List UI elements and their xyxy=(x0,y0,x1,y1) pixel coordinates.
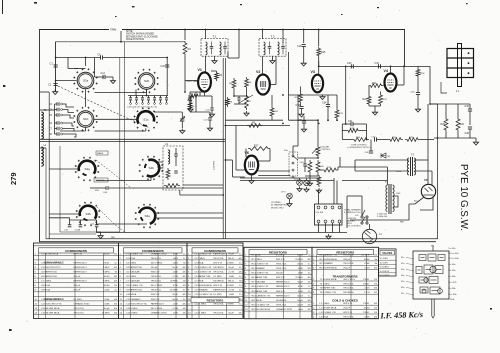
junction xyxy=(55,80,57,82)
trimmer arrow xyxy=(188,96,193,101)
svg-text:TROLITUL: TROLITUL xyxy=(151,281,162,283)
svg-text:TONAL SPEAKER: TONAL SPEAKER xyxy=(344,209,361,212)
wire xyxy=(258,170,290,172)
wire xyxy=(445,104,447,117)
wire xyxy=(475,138,477,140)
wire xyxy=(258,160,270,162)
wire xyxy=(225,159,232,161)
wire xyxy=(175,156,177,166)
wire xyxy=(445,132,447,138)
table condensers 2 xyxy=(119,243,188,319)
junction xyxy=(166,57,168,59)
capacitor C21a xyxy=(210,108,213,110)
svg-text:PAPER 500 V: PAPER 500 V xyxy=(151,302,165,305)
wire lamp bus xyxy=(240,177,320,179)
wire xyxy=(457,132,459,138)
svg-text:C43: C43 xyxy=(375,62,380,65)
svg-text:470K: 470K xyxy=(298,286,304,288)
resistor R21 xyxy=(369,84,384,88)
resistor R25 xyxy=(444,117,448,132)
svg-text:VOL.CONTROL: VOL.CONTROL xyxy=(347,226,362,228)
svg-text:TROLITUL: TROLITUL xyxy=(343,316,354,318)
wire speaker terminal xyxy=(339,223,341,233)
junction xyxy=(262,29,264,31)
capacitor C37 xyxy=(302,121,306,123)
svg-text:PAPER 500 V: PAPER 500 V xyxy=(73,280,87,283)
wire xyxy=(112,77,114,79)
wire xyxy=(289,119,319,121)
wire xyxy=(109,187,224,189)
wire speaker terminal xyxy=(332,223,334,233)
wire xyxy=(420,197,433,210)
capacitor C46a xyxy=(106,186,108,189)
valve V2 xyxy=(256,75,270,95)
svg-text:TROLITUL: TROLITUL xyxy=(213,258,224,260)
svg-text:WW 5 W: WW 5 W xyxy=(73,253,83,255)
svg-text:T4 0.5 MEG ¼W: T4 0.5 MEG ¼W xyxy=(320,291,337,294)
wire trim drop xyxy=(120,31,122,42)
svg-text:2.2 M: 2.2 M xyxy=(229,272,235,274)
coil L3 windings xyxy=(168,150,170,164)
svg-text:56-66: 56-66 xyxy=(297,254,303,256)
svg-text:& (SPEECH COIL): & (SPEECH COIL) xyxy=(344,212,361,214)
wire cap step xyxy=(63,104,75,107)
svg-text:.0005: .0005 xyxy=(298,309,304,311)
wire xyxy=(417,78,419,92)
wire xyxy=(60,130,86,132)
label ORANGE box xyxy=(94,178,108,182)
svg-text:2/-: 2/- xyxy=(183,253,186,255)
wire xyxy=(68,68,78,70)
svg-text:C12 1 MEG: C12 1 MEG xyxy=(195,303,207,305)
svg-text:V.4 10P13: V.4 10P13 xyxy=(380,271,390,273)
wire xyxy=(234,103,247,105)
wire HT to V5 xyxy=(427,104,429,184)
capacitor C49 xyxy=(468,109,472,111)
wire xyxy=(96,220,98,225)
svg-text:C10 0.5 MEG ¼W: C10 0.5 MEG ¼W xyxy=(195,293,214,296)
wire xyxy=(342,123,351,125)
svg-text:AERIAL VARIABLE: AERIAL VARIABLE xyxy=(44,261,64,264)
svg-text:4–850×220: 4–850×220 xyxy=(377,213,388,216)
switch S6 xyxy=(361,210,368,224)
svg-text:TROLITUL: TROLITUL xyxy=(343,288,354,290)
svg-text:R6 PAPER TUB.: R6 PAPER TUB. xyxy=(252,276,269,279)
svg-text:100K: 100K xyxy=(173,303,179,305)
svg-text:CONDENSERS: CONDENSERS xyxy=(65,249,87,253)
wire AF to T4 xyxy=(338,166,388,168)
junction xyxy=(85,57,87,59)
capacitor C45 xyxy=(416,93,420,95)
svg-text:TROLITUL: TROLITUL xyxy=(151,290,162,292)
wire xyxy=(214,56,216,58)
svg-text:V5: V5 xyxy=(424,178,428,182)
svg-text:PAPER 500 V: PAPER 500 V xyxy=(276,285,290,288)
wire xyxy=(272,56,274,58)
svg-text:COILS & CHOKES: COILS & CHOKES xyxy=(332,299,358,303)
wire to V4 grid xyxy=(390,66,392,74)
capacitor C20 xyxy=(129,98,132,100)
junction xyxy=(318,123,320,125)
wire xyxy=(368,86,370,95)
resistor R19 xyxy=(346,129,360,133)
resistor R27 xyxy=(248,147,270,151)
wire bus B xyxy=(224,58,226,239)
svg-text:C8 SILVER MICA: C8 SILVER MICA xyxy=(195,284,213,287)
junction xyxy=(184,91,186,93)
svg-text:25 MFD: 25 MFD xyxy=(295,259,303,261)
wire xyxy=(318,195,320,197)
resistor R7b xyxy=(245,94,249,110)
wire xyxy=(309,174,311,176)
resistor R6b xyxy=(245,77,249,89)
capacitor C14 xyxy=(103,75,105,79)
svg-text:C7 1 MEG: C7 1 MEG xyxy=(41,281,52,283)
wire xyxy=(205,95,213,97)
capacitor C9 xyxy=(101,55,103,59)
wire xyxy=(297,95,299,146)
svg-text:350 V WKG: 350 V WKG xyxy=(151,308,163,310)
svg-text:25 MFD: 25 MFD xyxy=(102,312,110,314)
svg-text:8 MFD: 8 MFD xyxy=(103,272,110,274)
table condensers 3 xyxy=(187,243,243,319)
wire xyxy=(142,96,144,98)
wire xyxy=(336,95,338,108)
mechanical link (dashed) xyxy=(58,86,150,128)
wire xyxy=(200,92,205,96)
valve V3 xyxy=(312,75,323,93)
svg-text:250 pF: 250 pF xyxy=(343,308,350,310)
svg-text:R25: R25 xyxy=(441,123,446,126)
T4 primary winding xyxy=(386,185,388,212)
wire LF bus lower xyxy=(40,141,225,143)
wire xyxy=(190,111,210,113)
svg-text:100K: 100K xyxy=(104,290,110,292)
svg-text:2.2 M: 2.2 M xyxy=(173,308,179,310)
resistor R2 xyxy=(183,41,187,56)
wire T4 sec xyxy=(393,196,398,207)
svg-text:279: 279 xyxy=(9,172,18,185)
ground R22 R23 xyxy=(372,110,377,115)
svg-text:TROLITUL: TROLITUL xyxy=(276,264,287,266)
wire xyxy=(298,157,318,159)
wire xyxy=(49,213,79,215)
wire xyxy=(103,57,167,59)
wire xyxy=(160,100,162,102)
wire xyxy=(369,105,381,107)
svg-text:(+) FREQUENCY NOTE (-): (+) FREQUENCY NOTE (-) xyxy=(347,147,372,149)
svg-text:CERAMIC N750: CERAMIC N750 xyxy=(276,308,293,311)
svg-text:C13 1 MEG: C13 1 MEG xyxy=(126,308,138,310)
wire xyxy=(305,175,318,177)
junction xyxy=(336,119,338,121)
svg-text:50 pF: 50 pF xyxy=(297,282,303,284)
capacitor C21 xyxy=(135,98,138,100)
wire xyxy=(56,57,101,59)
svg-text:C21 RES.: C21 RES. xyxy=(214,160,216,170)
ground V3 xyxy=(320,95,325,100)
wire xyxy=(183,184,223,186)
svg-text:2/-: 2/- xyxy=(308,291,311,293)
wire xyxy=(157,162,159,168)
svg-text:1/-: 1/- xyxy=(239,294,242,296)
svg-text:8 MFD: 8 MFD xyxy=(103,281,110,283)
svg-text:C1 0.5 MEG ¼W: C1 0.5 MEG ¼W xyxy=(126,252,143,255)
svg-text:CONDENSERS: CONDENSERS xyxy=(204,249,226,253)
wire xyxy=(333,178,335,204)
svg-text:100K: 100K xyxy=(173,312,179,314)
svg-text:VOL E/S: VOL E/S xyxy=(316,212,324,214)
switch wafer S2b xyxy=(134,69,158,93)
svg-text:50 pF: 50 pF xyxy=(228,312,234,314)
wire xyxy=(184,56,186,92)
wire V4 plate xyxy=(397,84,405,86)
wire xyxy=(67,58,69,69)
svg-text:WW 5 W: WW 5 W xyxy=(276,259,286,261)
svg-text:RESISTORS: RESISTORS xyxy=(207,299,224,303)
capacitor C10A xyxy=(79,225,83,227)
ground LP1 xyxy=(297,187,302,192)
capacitor C7 xyxy=(57,127,59,130)
resistor R13 xyxy=(322,168,338,172)
wire lower bus xyxy=(46,238,438,240)
svg-text:S1b: S1b xyxy=(452,248,455,250)
capacitor C2 xyxy=(54,84,58,86)
svg-text:C11 CERAMIC: C11 CERAMIC xyxy=(126,298,141,301)
svg-text:WW 5 W: WW 5 W xyxy=(343,312,353,314)
coil L1 windings xyxy=(41,147,43,166)
resistor R24 xyxy=(405,138,420,142)
svg-text:S.1: S.1 xyxy=(431,246,434,248)
svg-text:2.2 M: 2.2 M xyxy=(364,292,370,294)
svg-text:WW 5 W: WW 5 W xyxy=(213,262,223,264)
wire xyxy=(235,126,237,171)
wire enclosure bottom xyxy=(60,231,120,233)
wire S1b-S1c xyxy=(94,118,138,120)
wire xyxy=(318,169,322,171)
wire xyxy=(293,145,298,147)
wire xyxy=(318,61,320,74)
svg-text:350 V WKG: 350 V WKG xyxy=(343,279,355,281)
junction xyxy=(225,125,227,127)
wire cap step xyxy=(63,123,75,126)
svg-text:2.2 M: 2.2 M xyxy=(229,290,235,292)
wire xyxy=(79,220,81,225)
capacitor C46c xyxy=(369,151,373,153)
ground V1 cathode xyxy=(188,107,193,112)
svg-text:C2 MICA: C2 MICA xyxy=(126,257,135,260)
resistor R26b xyxy=(416,68,420,79)
svg-text:TROLITUL: TROLITUL xyxy=(276,268,287,270)
svg-text:TROLITUL: TROLITUL xyxy=(213,312,224,314)
wire xyxy=(361,196,363,216)
svg-text:R9 PAPER TUB.: R9 PAPER TUB. xyxy=(252,290,269,293)
svg-text:TRANSFORMERS: TRANSFORMERS xyxy=(332,274,357,278)
wire xyxy=(95,92,147,94)
wire xyxy=(135,90,137,96)
svg-text:.0005: .0005 xyxy=(364,268,370,270)
svg-text:1/-: 1/- xyxy=(239,276,242,278)
label WAVE box xyxy=(96,151,108,155)
resistor R15 xyxy=(317,47,321,58)
ground C24 xyxy=(180,129,185,134)
wire xyxy=(148,96,150,98)
wire xyxy=(136,100,138,102)
wire xyxy=(403,66,405,85)
svg-text:LP3 USED: LP3 USED xyxy=(271,202,281,204)
wire xyxy=(227,52,229,58)
svg-text:TONE CONTROL: TONE CONTROL xyxy=(351,145,368,147)
capacitor C20a xyxy=(189,101,192,103)
svg-text:WAVE: WAVE xyxy=(97,152,104,155)
svg-text:S6b: S6b xyxy=(452,276,455,278)
ground V6 cathode xyxy=(249,179,254,184)
valve V4 xyxy=(385,74,397,92)
wire xyxy=(233,176,245,178)
capacitor C25 xyxy=(159,98,162,100)
svg-text:V1: V1 xyxy=(198,68,202,72)
svg-text:T/B 41: T/B 41 xyxy=(363,312,370,314)
svg-text:R27: R27 xyxy=(254,145,259,148)
ground C14 xyxy=(110,79,115,84)
svg-text:V6: V6 xyxy=(245,151,249,155)
wire xyxy=(97,231,101,233)
junction xyxy=(184,29,186,31)
svg-text:0.1 MFD: 0.1 MFD xyxy=(213,276,222,278)
svg-text:S5b: S5b xyxy=(452,270,455,272)
wire xyxy=(236,169,245,171)
wire AF line xyxy=(319,65,430,67)
junction xyxy=(222,194,224,196)
svg-text:C3 1 MEG: C3 1 MEG xyxy=(126,262,137,264)
svg-text:C7 TUBULAR: C7 TUBULAR xyxy=(126,280,140,283)
svg-text:100K: 100K xyxy=(298,268,304,270)
wire xyxy=(211,110,213,112)
svg-text:R3 CERAMIC: R3 CERAMIC xyxy=(320,262,334,265)
wire padder bus xyxy=(128,95,168,97)
junction xyxy=(205,29,207,31)
svg-text:50 pF: 50 pF xyxy=(104,308,110,310)
svg-text:I.F. 458 Kc/s: I.F. 458 Kc/s xyxy=(379,310,423,321)
svg-text:TROLITUL: TROLITUL xyxy=(151,258,162,260)
resistor R3 xyxy=(215,71,219,81)
wire xyxy=(146,90,148,93)
gang switch mechanism drawing xyxy=(413,245,449,318)
svg-text:V2: V2 xyxy=(256,70,260,74)
svg-text:R1 MICA: R1 MICA xyxy=(252,253,261,256)
wire xyxy=(336,181,338,205)
svg-text:AERIAL VARIABLE: AERIAL VARIABLE xyxy=(44,298,64,301)
wire xyxy=(55,103,58,105)
svg-text:50 pF: 50 pF xyxy=(297,304,303,306)
ground R17 R18 xyxy=(307,181,312,186)
wire HT drop xyxy=(262,30,264,40)
wire cap bank bus xyxy=(54,104,56,134)
wire xyxy=(175,148,177,154)
svg-text:470K: 470K xyxy=(173,285,179,287)
wire xyxy=(420,139,434,141)
svg-text:C7 MICA: C7 MICA xyxy=(195,280,204,283)
wire xyxy=(354,160,356,171)
svg-text:WAVE POSITION: WAVE POSITION xyxy=(126,38,144,41)
oscillator coil L3 box xyxy=(163,146,183,190)
svg-text:470K: 470K xyxy=(173,253,179,255)
svg-text:C12 ELECTROLYTIC: C12 ELECTROLYTIC xyxy=(126,303,147,305)
svg-text:V.2 10F9: V.2 10F9 xyxy=(380,262,389,264)
svg-text:C4 PAPER TUB.: C4 PAPER TUB. xyxy=(126,266,143,269)
svg-text:.01 MFD: .01 MFD xyxy=(170,290,179,292)
svg-text:R4 CERAMIC: R4 CERAMIC xyxy=(252,267,266,270)
wire S2b to padders xyxy=(146,90,148,96)
wire T1 to V1 grid xyxy=(205,56,207,72)
wire xyxy=(366,218,368,222)
svg-text:1/-: 1/- xyxy=(183,258,186,260)
svg-text:470K: 470K xyxy=(104,299,110,301)
capacitor C8 xyxy=(57,132,59,135)
wire xyxy=(55,128,58,130)
svg-text:WW 5 W: WW 5 W xyxy=(276,291,286,293)
svg-text:CERAMIC N750: CERAMIC N750 xyxy=(151,311,168,314)
capacitor C19 xyxy=(302,45,306,47)
wire xyxy=(154,96,156,98)
ground C35 xyxy=(301,127,306,132)
svg-text:C1: C1 xyxy=(50,62,54,66)
svg-text:C19: C19 xyxy=(297,45,302,48)
svg-text:C14: C14 xyxy=(101,72,106,75)
wire xyxy=(245,149,247,158)
svg-text:WW 5 W: WW 5 W xyxy=(276,277,286,279)
resistor R23 xyxy=(379,93,383,106)
svg-text:S3a: S3a xyxy=(145,214,151,218)
svg-text:250 pF: 250 pF xyxy=(73,285,80,287)
switch wafer S1c xyxy=(134,107,158,131)
svg-text:470K: 470K xyxy=(298,291,304,293)
junction xyxy=(317,157,319,159)
wire xyxy=(246,89,248,94)
capacitor C43 xyxy=(379,64,381,68)
svg-text:56-66: 56-66 xyxy=(297,264,303,266)
wire xyxy=(55,122,58,124)
svg-text:S1c: S1c xyxy=(143,118,149,122)
wire xyxy=(95,76,105,78)
wire xyxy=(106,76,114,78)
resistor R18 xyxy=(316,160,320,174)
junction xyxy=(303,29,305,31)
wire xyxy=(300,87,302,93)
wire xyxy=(309,176,311,181)
switch drawing callouts xyxy=(401,246,458,302)
wire xyxy=(155,217,223,219)
capacitor C23 xyxy=(147,98,150,100)
RF section enclosure xyxy=(56,42,185,92)
svg-text:TROLITUL: TROLITUL xyxy=(73,308,84,310)
svg-text:100K: 100K xyxy=(173,272,179,274)
wire osc bus xyxy=(225,125,290,127)
svg-text:T.1: T.1 xyxy=(213,35,217,39)
wire T2 to V2 xyxy=(262,56,264,74)
svg-text:CONDENSERS: CONDENSERS xyxy=(142,249,164,253)
ground C38 xyxy=(299,112,304,117)
wire right corner drop xyxy=(429,66,431,104)
wire xyxy=(74,68,86,70)
svg-text:2.2 M: 2.2 M xyxy=(173,276,179,278)
capacitor C1 xyxy=(54,65,58,67)
wire xyxy=(300,104,302,106)
svg-text:1/-: 1/- xyxy=(308,286,311,288)
junction xyxy=(233,95,235,97)
wire xyxy=(148,100,150,102)
wire switch shaft line 2 xyxy=(124,42,126,232)
